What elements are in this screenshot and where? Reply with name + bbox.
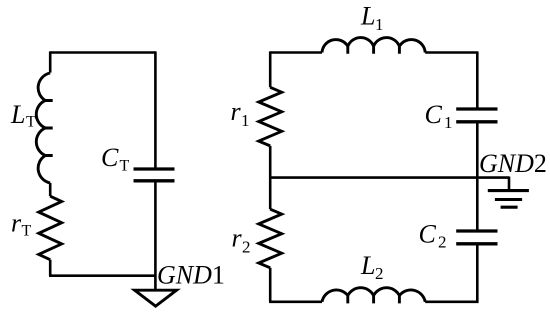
ground GND2 xyxy=(488,191,529,208)
svg-text:C: C xyxy=(425,100,443,129)
svg-text:1: 1 xyxy=(375,15,384,34)
resistor r2 xyxy=(259,209,282,268)
svg-text:2: 2 xyxy=(438,233,447,252)
wire GND2 stub xyxy=(508,177,511,191)
wire left-circuit left vertical upper xyxy=(49,51,52,72)
wire right-circuit left vertical middle xyxy=(269,146,272,209)
resistor rT xyxy=(39,196,62,260)
inductor L1 xyxy=(322,38,425,54)
svg-text:T: T xyxy=(120,158,130,175)
resistor r1 xyxy=(259,87,282,146)
svg-text:C: C xyxy=(419,220,437,249)
wire left-circuit right vertical upper xyxy=(154,51,157,169)
inductor L2 xyxy=(322,288,425,304)
inductor LT xyxy=(36,73,52,183)
wire right-circuit top left segment xyxy=(270,51,322,54)
wire left-circuit top xyxy=(50,51,155,54)
svg-text:GND2: GND2 xyxy=(479,149,547,178)
svg-text:2: 2 xyxy=(242,237,251,256)
wire right-circuit left vertical lower xyxy=(269,268,272,302)
svg-text:T: T xyxy=(22,223,32,240)
svg-text:L: L xyxy=(10,100,25,129)
wire left-circuit left vertical middle xyxy=(49,183,52,196)
svg-text:2: 2 xyxy=(375,264,384,283)
ground GND1 xyxy=(135,290,177,306)
capacitor C2 xyxy=(456,231,497,244)
wire middle horizontal to ground xyxy=(270,176,509,179)
svg-text:L: L xyxy=(360,251,375,280)
capacitor CT xyxy=(134,169,175,181)
wire right-circuit top right segment xyxy=(425,51,477,54)
svg-text:C: C xyxy=(101,143,119,172)
svg-text:1: 1 xyxy=(241,111,250,130)
wire right-circuit right vertical lower xyxy=(476,244,479,303)
svg-text:1: 1 xyxy=(444,113,453,132)
wire left-circuit right vertical lower xyxy=(154,181,157,290)
svg-text:r: r xyxy=(11,209,22,238)
svg-text:GND1: GND1 xyxy=(157,261,225,290)
wire right-circuit right vertical middle xyxy=(476,122,479,231)
wire left-circuit left vertical lower xyxy=(49,260,52,276)
capacitor C1 xyxy=(456,109,497,122)
svg-text:L: L xyxy=(360,2,375,31)
wire right-circuit bottom left segment xyxy=(269,300,322,303)
svg-text:r: r xyxy=(231,97,242,126)
wire left-circuit bottom xyxy=(49,274,155,277)
svg-text:r: r xyxy=(232,224,243,253)
svg-text:T: T xyxy=(26,114,36,131)
wire right-circuit left vertical upper xyxy=(269,51,272,87)
wire right-circuit bottom right segment xyxy=(425,300,478,303)
wire right-circuit right vertical upper xyxy=(476,51,479,109)
